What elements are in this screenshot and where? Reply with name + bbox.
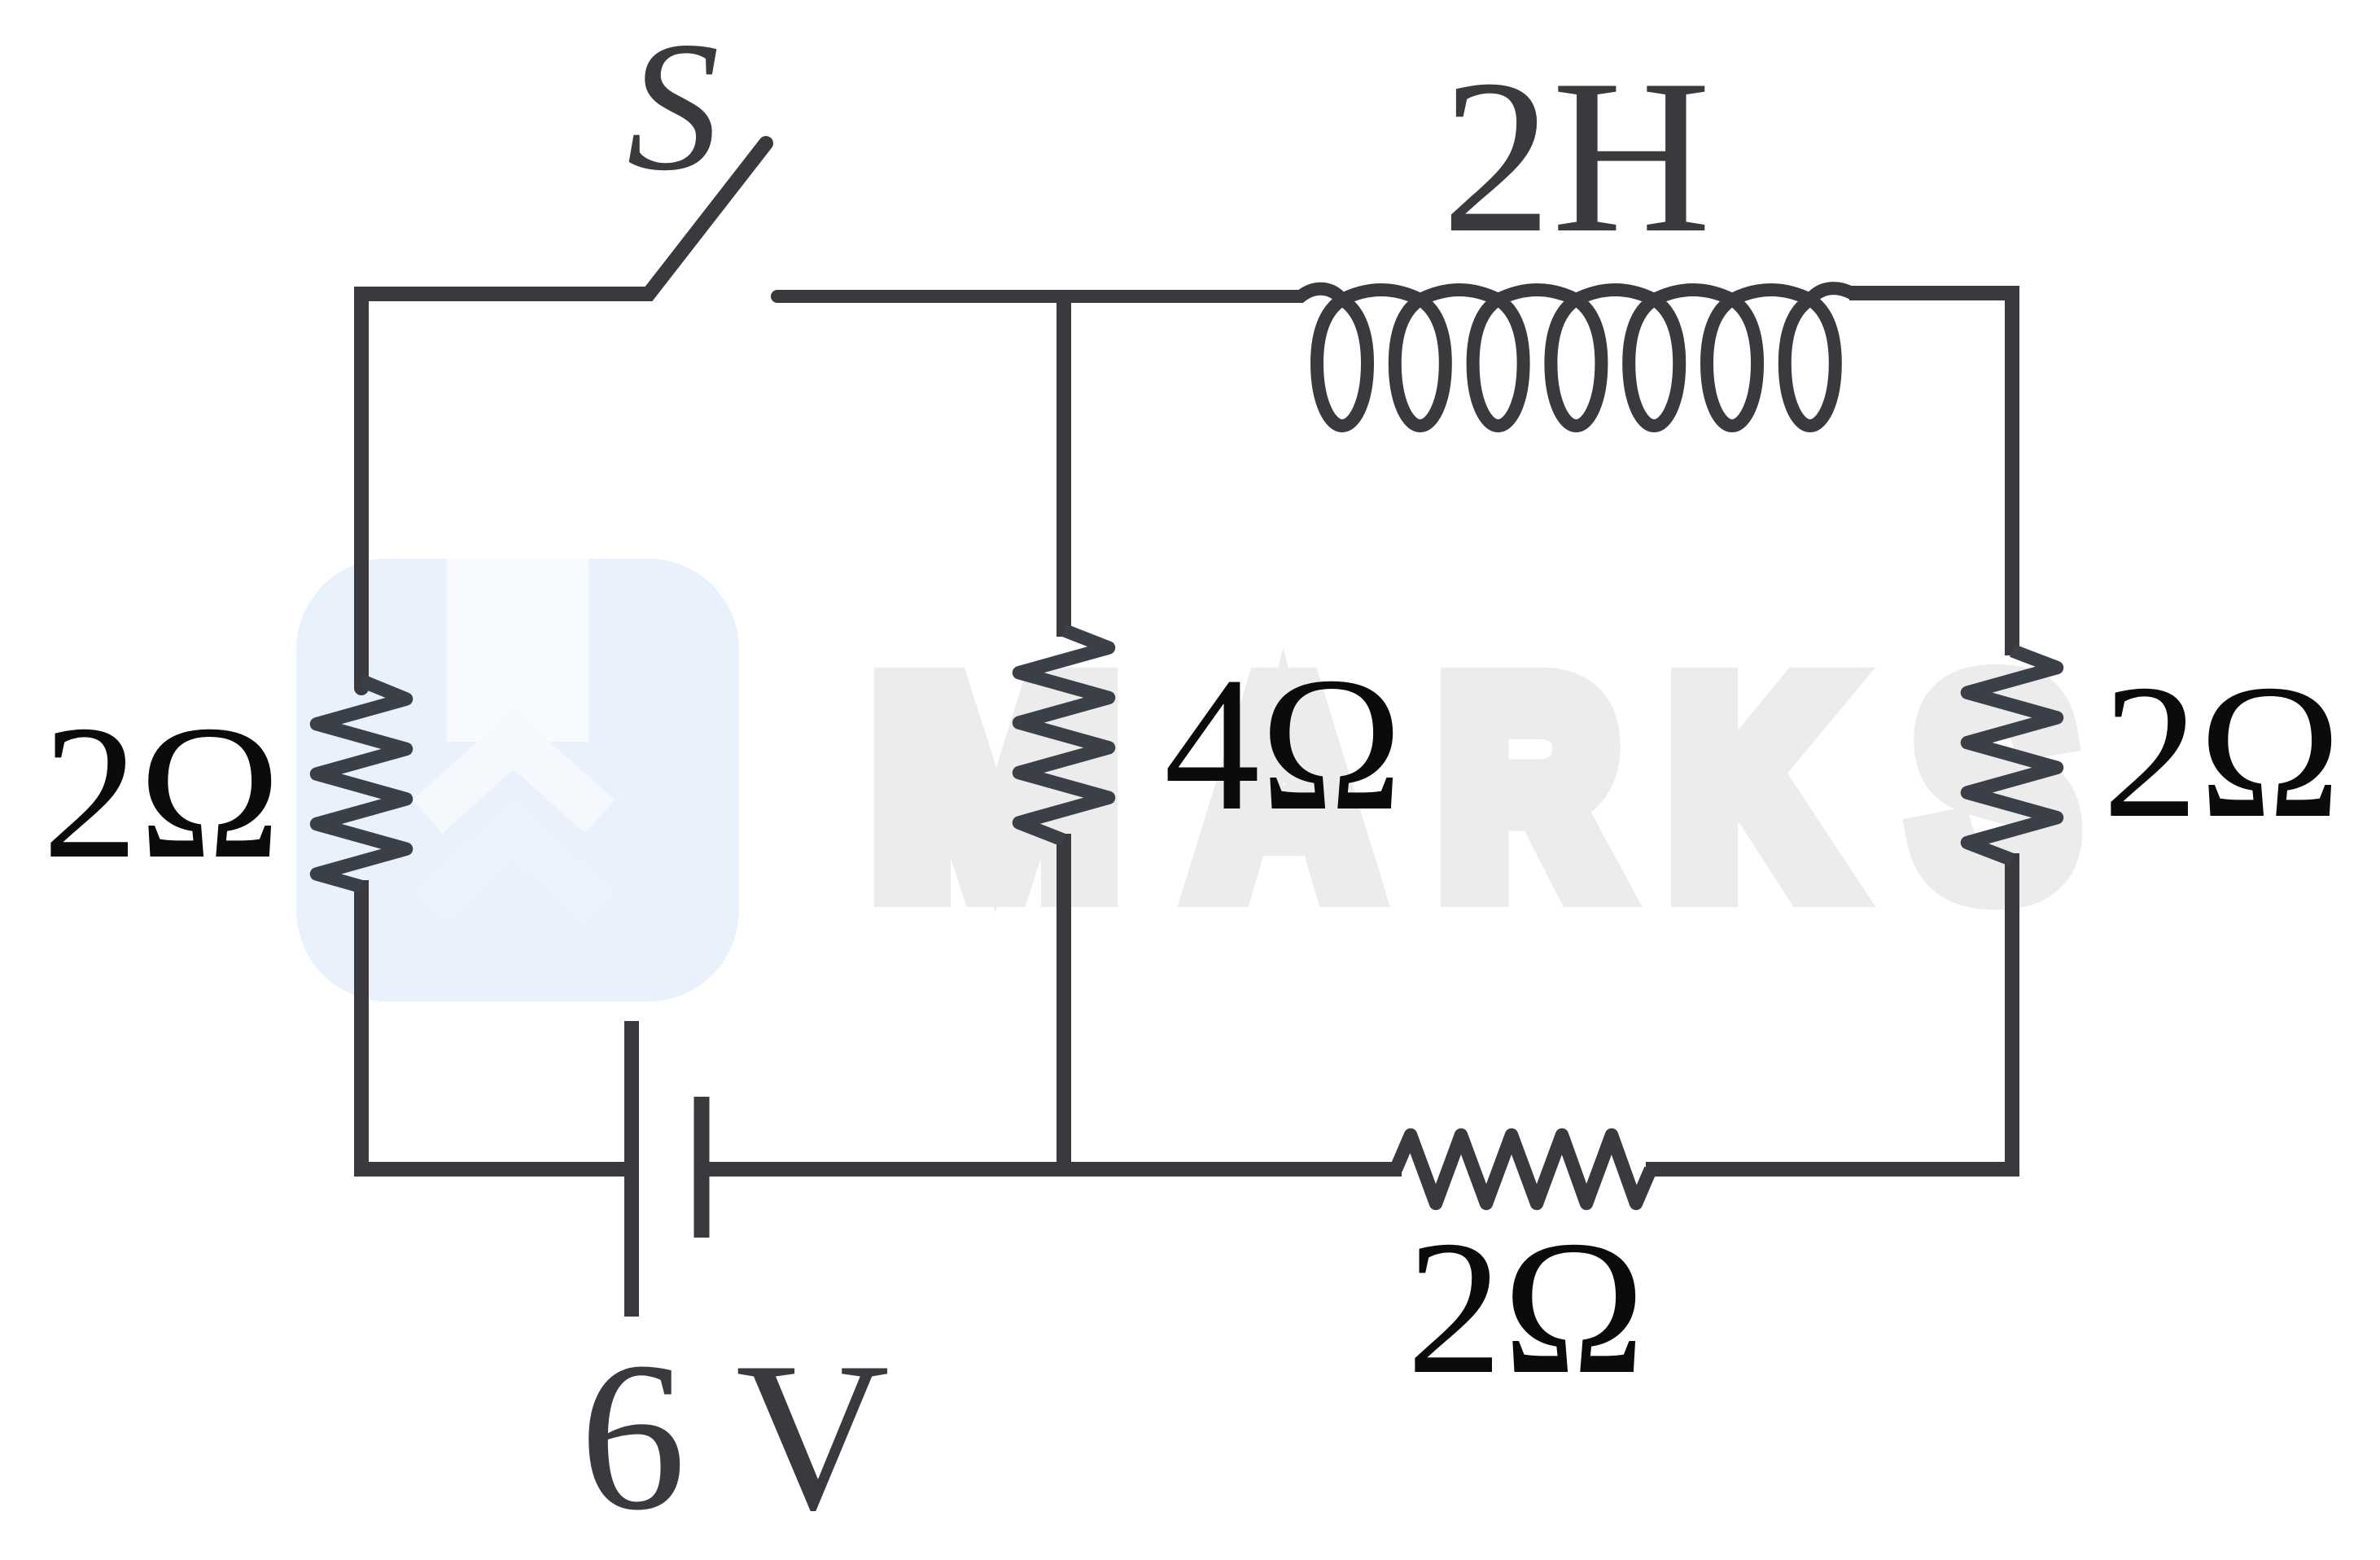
svg-text:S: S	[627, 4, 720, 209]
svg-text:K: K	[1671, 624, 1844, 949]
svg-text:6 V: 6 V	[580, 1318, 890, 1554]
svg-text:R: R	[1441, 624, 1617, 949]
svg-text:2Ω: 2Ω	[2102, 646, 2341, 858]
svg-text:2H: 2H	[1442, 34, 1711, 278]
svg-text:4Ω: 4Ω	[1164, 638, 1402, 851]
svg-text:2Ω: 2Ω	[42, 686, 281, 899]
svg-text:2Ω: 2Ω	[1407, 1202, 1645, 1414]
